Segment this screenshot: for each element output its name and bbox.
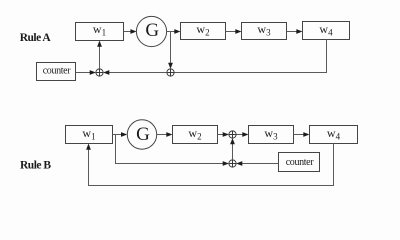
wire w2 to S3 (Rule B) xyxy=(218,132,229,137)
wire G to w2 (Rule B) xyxy=(157,132,173,137)
svg-text:G: G xyxy=(136,124,150,145)
wire w1 to G (Rule B) xyxy=(113,132,128,137)
block w4 (Rule A) xyxy=(303,22,350,40)
summing junction S4 (Rule B, lower) xyxy=(229,160,236,167)
wire w3 to w4 (Rule B) xyxy=(294,132,310,137)
block w2 (Rule A) xyxy=(181,22,226,39)
wire S3 to w3 (Rule B) xyxy=(236,132,248,137)
svg-text:Rule B: Rule B xyxy=(20,160,51,172)
wire G to w2 (Rule A) xyxy=(167,29,181,34)
wire G branch down into S2 (Rule A) xyxy=(168,32,173,69)
summing junction S3 (Rule B, upper) xyxy=(229,131,236,138)
block w1 (Rule A) xyxy=(76,22,124,40)
block counter (Rule B) xyxy=(279,153,320,172)
block w3 (Rule B) xyxy=(249,126,294,144)
gain block G (Rule A) xyxy=(136,16,166,46)
block counter (Rule A) xyxy=(37,63,76,81)
gain block G (Rule B) xyxy=(127,120,156,149)
summing junction S1 (Rule A, below w1) xyxy=(96,69,103,76)
block w3 (Rule A) xyxy=(242,22,287,39)
svg-text:Rule A: Rule A xyxy=(20,32,52,44)
svg-text:G: G xyxy=(145,20,159,41)
wire w2 to w3 (Rule A) xyxy=(226,29,242,34)
summing junction S2 (Rule A, below G branch) xyxy=(167,69,174,76)
wire w4 feedback down and left (Rule A) xyxy=(174,40,326,73)
wire w4 feedback loop down, left and up into w1 (Rule B) xyxy=(86,144,333,186)
wire S2 to S1 (Rule A) xyxy=(103,70,167,75)
wire w1 to G (Rule A) xyxy=(124,29,137,34)
wire S1 up into w1 (Rule A) xyxy=(97,41,102,69)
block w4 (Rule B) xyxy=(310,126,358,144)
svg-text:counter: counter xyxy=(43,66,72,77)
wire w3 to w4 (Rule A) xyxy=(287,29,303,34)
wire S4 up into S3 (Rule B) xyxy=(230,138,235,160)
wire tap from w1 output down and right into S4 (Rule B) xyxy=(116,135,229,166)
wire counter to S1 (Rule A) xyxy=(76,70,96,75)
block w1 (Rule B) xyxy=(66,126,113,144)
wire counter to S4 (Rule B) xyxy=(236,161,278,166)
block w2 (Rule B) xyxy=(173,126,218,144)
svg-text:counter: counter xyxy=(286,157,315,168)
